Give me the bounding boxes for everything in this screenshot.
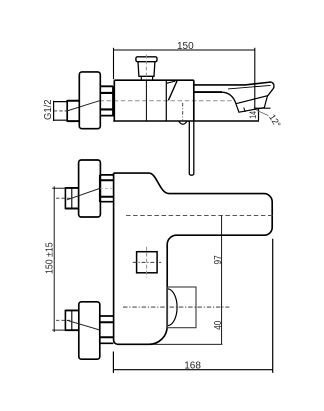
handle wedge (side view) <box>165 80 167 121</box>
body seam vertical line <box>145 80 147 121</box>
dimension 168 line <box>113 369 272 371</box>
dimension 168 right extension <box>272 239 274 373</box>
svg-text:168: 168 <box>184 360 201 371</box>
handle pivot axis dash-dot <box>182 103 184 122</box>
svg-text:G1/2: G1/2 <box>43 99 54 120</box>
dimension 150±15 extension top <box>52 187 65 189</box>
cartridge cap foot <box>140 76 154 80</box>
dimension 150 line <box>114 49 255 51</box>
upper wall flange (front view) <box>79 160 101 217</box>
lever bar (side view) <box>189 121 194 175</box>
svg-text:150 ±15: 150 ±15 <box>44 242 55 274</box>
dimension 150 right extension line <box>254 48 256 109</box>
spout inner top line <box>228 85 271 89</box>
svg-text:14: 14 <box>248 111 258 119</box>
handle end-cap arc <box>168 289 177 326</box>
outlet lip <box>244 108 246 112</box>
connection nut (side view) <box>99 86 101 116</box>
faucet body (side view) <box>114 80 194 121</box>
wall flange (side view) <box>79 72 100 129</box>
upper connection nut (front view) <box>99 175 101 202</box>
stub axis (dark dashed) <box>54 110 68 112</box>
spout outlet block <box>236 96 268 113</box>
spout under edge <box>194 91 222 93</box>
handle centerline dash-dot <box>123 306 229 308</box>
upper faucet axis gray dash <box>100 187 113 189</box>
spout top edge <box>194 82 271 85</box>
angle 12 leader line <box>257 110 269 115</box>
spout tip face <box>268 82 274 96</box>
upper eccentric diagonal <box>67 188 100 199</box>
eccentric diagonal centerline <box>67 101 99 111</box>
upper stub axis dashed <box>56 197 72 199</box>
cartridge cap brim <box>136 57 157 62</box>
lower wall flange (front view) <box>79 302 100 359</box>
dimension 14 tick <box>254 107 271 109</box>
faucet body outline (front view) <box>114 173 273 344</box>
screw boss square <box>137 252 158 273</box>
dimension 150 left extension line <box>113 48 115 79</box>
svg-text:12°: 12° <box>267 112 283 129</box>
svg-text:97: 97 <box>213 255 224 265</box>
dimension 168 left extension <box>112 352 114 373</box>
spout under S-curve <box>222 92 236 104</box>
lower connection nut (front view) <box>99 316 101 344</box>
cartridge cap body <box>138 62 155 77</box>
cap centerline gray dashed <box>145 55 147 80</box>
square vertical gray dash <box>146 247 148 278</box>
dimension 14 line <box>258 108 260 120</box>
svg-text:40: 40 <box>213 320 224 330</box>
upper pipe stub <box>65 188 78 209</box>
lower pipe stub <box>65 310 78 330</box>
svg-text:150: 150 <box>177 41 194 52</box>
stub thick segment <box>67 101 79 121</box>
lower stub axis dashed <box>56 319 72 321</box>
body bottom edge + 14 reference extension <box>113 120 259 122</box>
body centerline (gray dashed) <box>100 100 234 102</box>
body bottom extension line <box>150 343 222 345</box>
spout centerline dashed <box>126 215 274 217</box>
lower eccentric diagonal <box>67 320 100 330</box>
dimension 150±15 extension bottom <box>52 329 65 331</box>
dimension 150±15 line <box>53 186 55 332</box>
wall pipe stub (side view) <box>54 101 68 121</box>
handle block (front view) <box>168 287 197 328</box>
dimension 97/40 line <box>221 216 223 345</box>
pivot ball arc <box>179 121 187 124</box>
square horizontal dash-dot <box>133 261 162 263</box>
